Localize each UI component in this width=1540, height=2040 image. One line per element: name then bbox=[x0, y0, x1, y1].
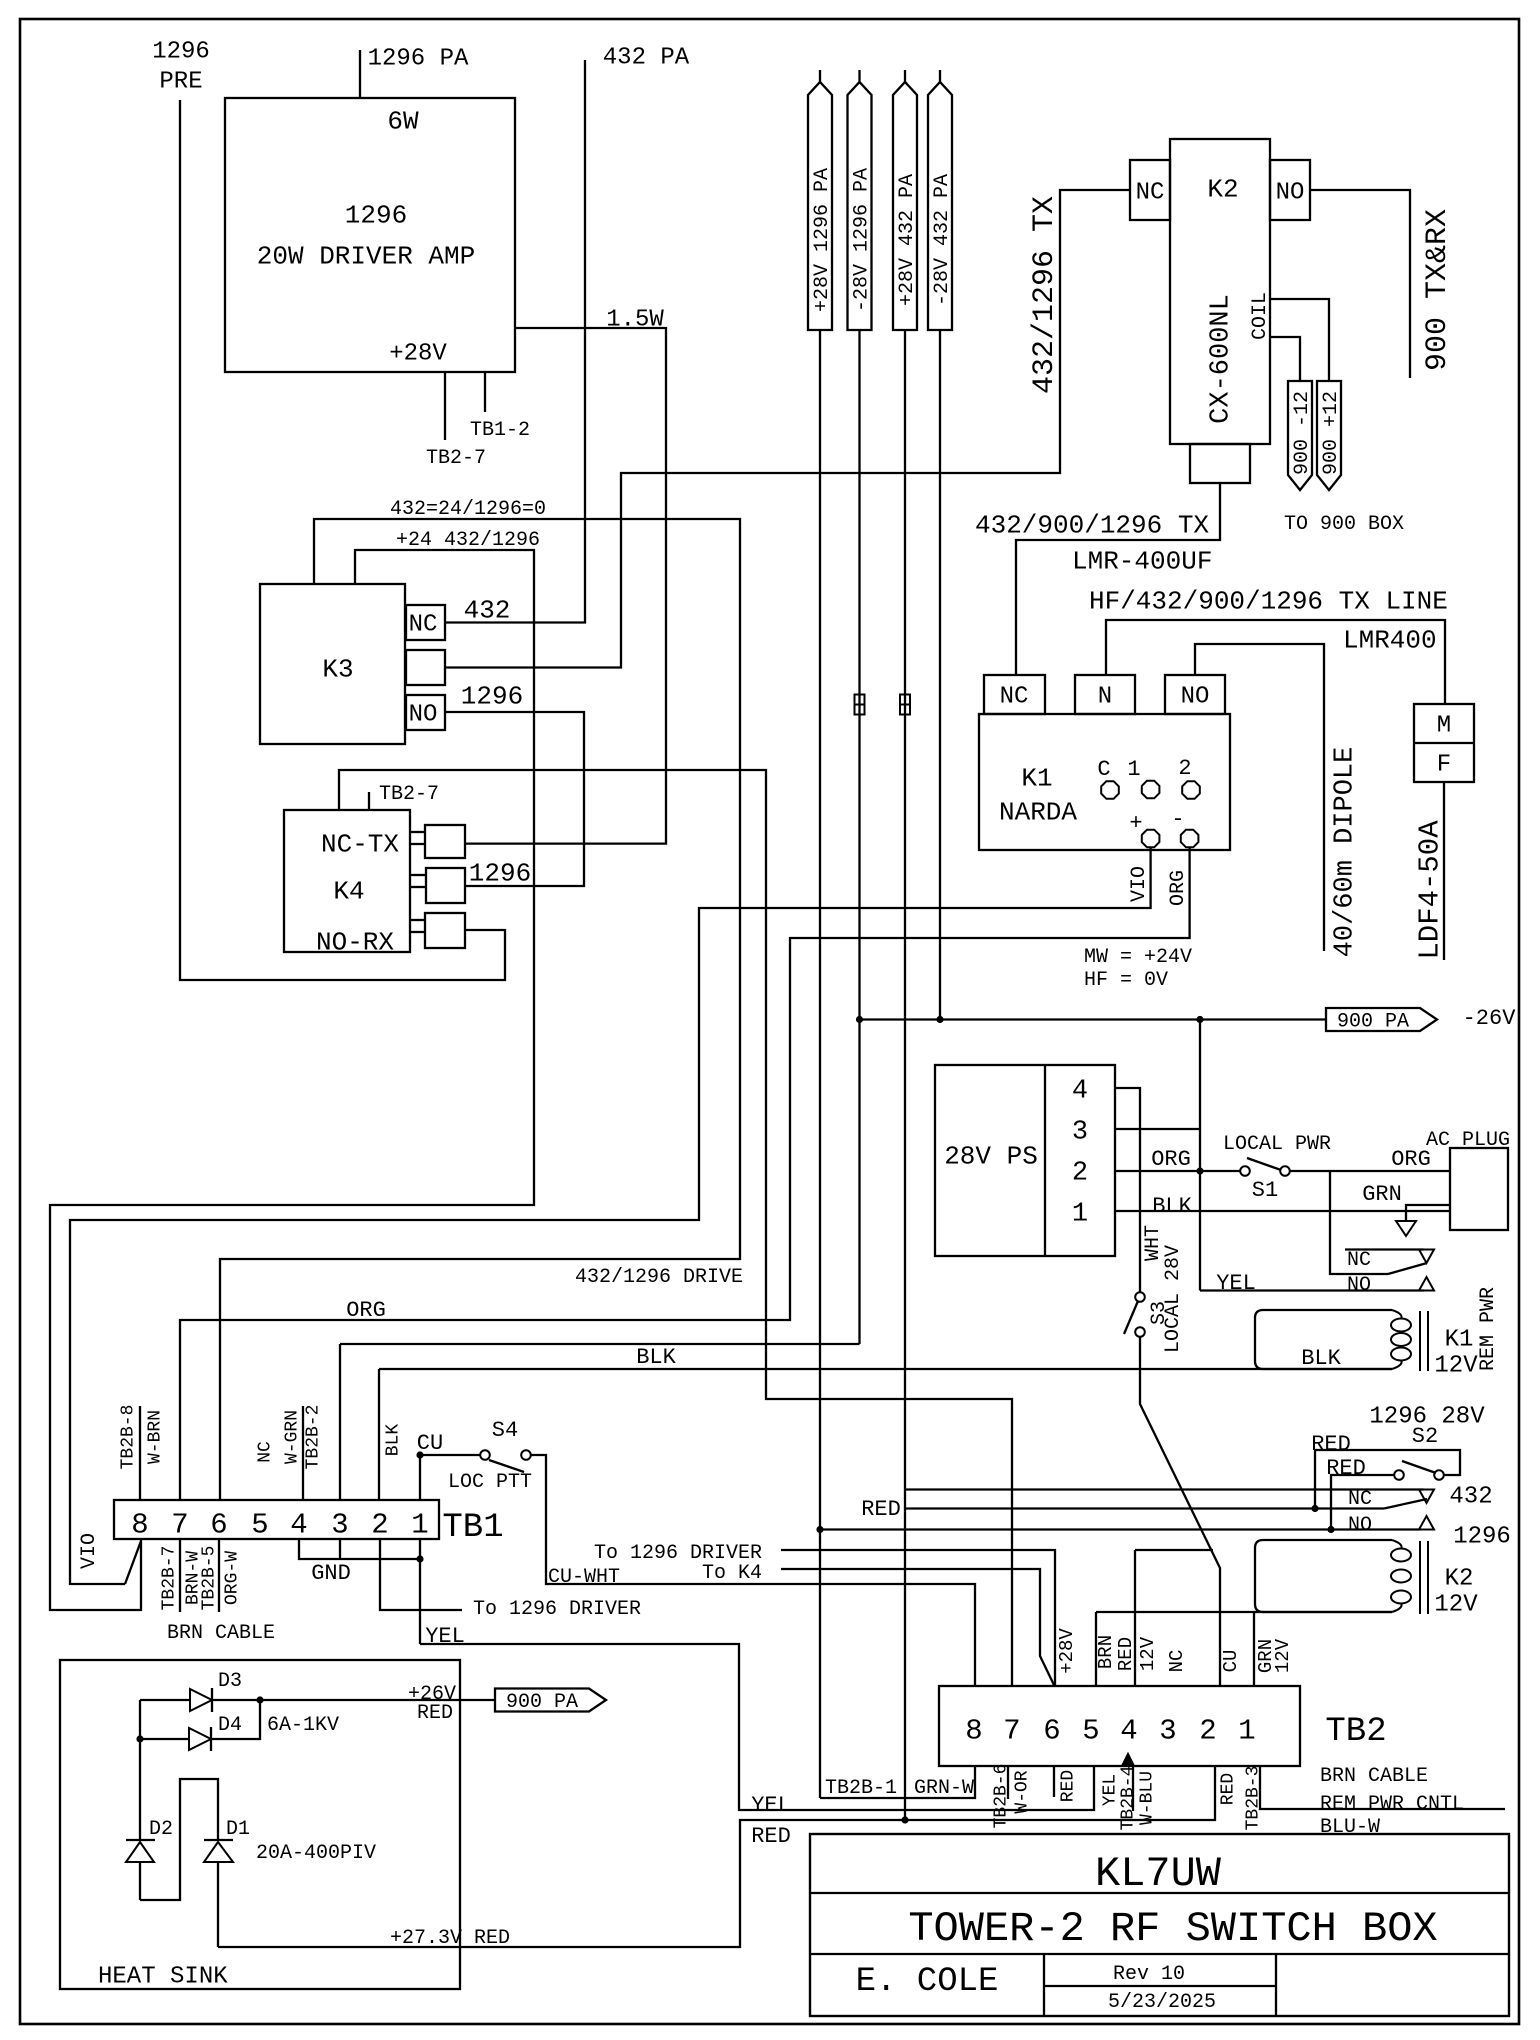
svg-text:4: 4 bbox=[1072, 1077, 1088, 1107]
title cell rev bbox=[1275, 1954, 1277, 2016]
plug AC PLUG box bbox=[1450, 1148, 1508, 1230]
svg-text:1296: 1296 bbox=[345, 200, 407, 230]
wire TB1-2 to 1296 driver bbox=[380, 1539, 462, 1610]
fuse on -28V 1296 PA bbox=[855, 695, 865, 715]
svg-text:TB2B-2: TB2B-2 bbox=[304, 1405, 324, 1470]
contact S2 NC 432 bbox=[905, 1488, 1424, 1490]
svg-text:432 PA: 432 PA bbox=[603, 45, 690, 72]
svg-text:2: 2 bbox=[1072, 1159, 1088, 1189]
wire K3 NO 1296 to K4 common bbox=[445, 712, 584, 886]
terminal K3 NC box bbox=[406, 605, 445, 640]
svg-text:-28V 1296 PA: -28V 1296 PA bbox=[851, 168, 874, 312]
svg-text:D2: D2 bbox=[149, 1818, 173, 1841]
wire K1 N to M/F adapter bbox=[1106, 620, 1445, 704]
connector flag +28V 1296 PA bbox=[808, 82, 832, 330]
wire K2 common to K1 NC 432/900/1296 TX bbox=[1016, 483, 1220, 674]
svg-text:432/1296 TX: 432/1296 TX bbox=[1028, 196, 1062, 394]
svg-text:W-BRN: W-BRN bbox=[146, 1410, 166, 1464]
svg-text:COIL: COIL bbox=[1249, 292, 1272, 340]
title block outer box bbox=[810, 1834, 1509, 2016]
svg-text:Rev 10: Rev 10 bbox=[1113, 1963, 1185, 1986]
svg-text:12V: 12V bbox=[1272, 1638, 1294, 1673]
svg-text:+28V 432 PA: +28V 432 PA bbox=[896, 174, 919, 306]
svg-text:LMR-400UF: LMR-400UF bbox=[1072, 546, 1212, 576]
svg-text:AC PLUG: AC PLUG bbox=[1426, 1129, 1510, 1152]
svg-text:6W: 6W bbox=[387, 106, 419, 136]
svg-text:GND: GND bbox=[311, 1561, 351, 1586]
svg-text:TOWER-2 RF SWITCH BOX: TOWER-2 RF SWITCH BOX bbox=[908, 1905, 1437, 1953]
svg-text:HEAT SINK: HEAT SINK bbox=[98, 1964, 228, 1991]
svg-text:K2: K2 bbox=[1207, 174, 1238, 204]
wire To K4 to TB2-6 bbox=[781, 1569, 1054, 1685]
wire TB1-1 up to CU S4 bbox=[419, 1455, 421, 1500]
svg-text:1: 1 bbox=[411, 1508, 428, 1541]
svg-text:432: 432 bbox=[464, 595, 511, 625]
svg-text:W-GRN: W-GRN bbox=[283, 1410, 303, 1464]
title row TOWER-2 RF SWITCH BOX bbox=[810, 1953, 1509, 1955]
svg-text:NARDA: NARDA bbox=[999, 797, 1077, 827]
svg-text:HF/432/900/1296 TX LINE: HF/432/900/1296 TX LINE bbox=[1089, 586, 1448, 616]
wire VIO diagonal to TB1 pin8 bbox=[125, 1541, 141, 1584]
svg-text:BLU-W: BLU-W bbox=[1320, 1816, 1380, 1839]
svg-text:432/1296 DRIVE: 432/1296 DRIVE bbox=[575, 1266, 743, 1289]
wire F to LDF4-50A bbox=[1443, 782, 1445, 960]
svg-text:D3: D3 bbox=[218, 1670, 242, 1693]
svg-text:12V: 12V bbox=[1434, 1592, 1478, 1619]
connector flag 900 PA bottom bbox=[495, 1689, 606, 1712]
connector flag +28V 432 PA bbox=[893, 82, 917, 330]
svg-text:900 PA: 900 PA bbox=[1337, 1011, 1409, 1034]
label TB2-7 tick bbox=[368, 792, 370, 810]
svg-text:NC: NC bbox=[256, 1441, 276, 1463]
wire K3 common to K2 NC bbox=[445, 190, 1130, 668]
wire K2 coil - to flag 900 -12 bbox=[1270, 337, 1300, 381]
svg-text:NO: NO bbox=[409, 702, 438, 729]
svg-text:YEL: YEL bbox=[751, 1793, 791, 1818]
svg-text:K1: K1 bbox=[1021, 763, 1052, 793]
power supply 28V PS box bbox=[935, 1065, 1115, 1256]
svg-text:TB2-7: TB2-7 bbox=[379, 783, 439, 806]
contact K1 NC bbox=[1345, 1248, 1424, 1250]
wire +28V 1296 PA down to TB2-8 bbox=[819, 330, 821, 1798]
wire VIO from K1 + to TB1-8 area bbox=[70, 848, 1151, 1584]
svg-text:40/60m DIPOLE: 40/60m DIPOLE bbox=[1331, 747, 1361, 958]
svg-text:1296 PA: 1296 PA bbox=[368, 46, 469, 73]
terminal K4 common box bbox=[426, 868, 465, 903]
wire BRN TB2-5 to K2 coil bbox=[1095, 1612, 1097, 1686]
wire BLK -26V from TB1-3 bbox=[339, 1344, 341, 1500]
svg-text:CU: CU bbox=[1220, 1650, 1242, 1673]
wire TB1-6 below stub bbox=[218, 1539, 220, 1612]
svg-text:RED: RED bbox=[1219, 1773, 1239, 1805]
svg-text:NO-RX: NO-RX bbox=[316, 927, 394, 957]
svg-text:K4: K4 bbox=[333, 876, 364, 906]
svg-text:8: 8 bbox=[131, 1508, 148, 1541]
svg-text:1: 1 bbox=[1238, 1714, 1255, 1747]
wire TB2-8 below to +28V 1296 PA flag bbox=[820, 1766, 975, 1798]
svg-text:-26V: -26V bbox=[1463, 1006, 1517, 1031]
svg-text:BRN CABLE: BRN CABLE bbox=[167, 1622, 275, 1645]
wire To 1296 DRIVER to TB2-6 bbox=[781, 1550, 1055, 1686]
svg-text:6: 6 bbox=[210, 1508, 227, 1541]
svg-text:M: M bbox=[1437, 713, 1451, 740]
svg-text:NO: NO bbox=[1347, 1274, 1371, 1297]
wire GND bracket TB1-4 TB1-3 bbox=[299, 1539, 421, 1559]
terminal K3 NO box bbox=[406, 695, 445, 730]
svg-text:S4: S4 bbox=[492, 1418, 518, 1443]
terminal K1 NC box bbox=[984, 675, 1045, 714]
switch S3 bbox=[1135, 1292, 1145, 1302]
svg-text:6A-1KV: 6A-1KV bbox=[267, 1714, 339, 1737]
svg-text:3: 3 bbox=[1159, 1714, 1176, 1747]
svg-text:BLK: BLK bbox=[1301, 1346, 1341, 1371]
wire RED +27.3V from heat sink to TB2-2 bbox=[218, 1766, 1215, 1947]
svg-text:4: 4 bbox=[1120, 1714, 1137, 1747]
wire driver +28V stub TB2-7 bbox=[444, 372, 446, 440]
svg-text:BLK: BLK bbox=[1152, 1194, 1192, 1219]
svg-text:TB2: TB2 bbox=[1325, 1713, 1386, 1751]
title row KL7UW bbox=[810, 1892, 1509, 1894]
svg-text:LOCAL PWR: LOCAL PWR bbox=[1223, 1133, 1331, 1156]
svg-text:To K4: To K4 bbox=[702, 1562, 762, 1585]
wire PS pin3 to -26V bus bbox=[1115, 1128, 1200, 1130]
svg-text:5: 5 bbox=[1082, 1714, 1099, 1747]
svg-text:900 -12: 900 -12 bbox=[1291, 391, 1314, 475]
wire TB1-7 below stub bbox=[179, 1539, 181, 1612]
relay K4 box bbox=[284, 810, 410, 952]
svg-text:N: N bbox=[1098, 684, 1112, 711]
wire K1 NO to 40/60m dipole bbox=[1195, 644, 1324, 951]
wire RED to TB2 pin4 net bbox=[1135, 1549, 1213, 1551]
svg-text:LMR400: LMR400 bbox=[1343, 625, 1437, 655]
adapter M/F box bbox=[1414, 704, 1474, 782]
svg-text:RED: RED bbox=[1311, 1432, 1351, 1457]
terminal block TB1 box bbox=[114, 1500, 439, 1539]
svg-text:RED: RED bbox=[861, 1497, 901, 1522]
svg-text:BRN: BRN bbox=[1095, 1635, 1117, 1669]
connector flag -28V 1296 PA bbox=[848, 82, 872, 330]
svg-text:900 TX&RX: 900 TX&RX bbox=[1421, 209, 1455, 371]
terminal K1 NO box bbox=[1165, 675, 1225, 714]
svg-text:3: 3 bbox=[1072, 1118, 1088, 1148]
svg-text:TB2B-5: TB2B-5 bbox=[200, 1546, 220, 1611]
svg-text:ORG-W: ORG-W bbox=[223, 1551, 243, 1605]
svg-text:5: 5 bbox=[251, 1508, 268, 1541]
svg-text:8: 8 bbox=[965, 1714, 982, 1747]
svg-text:TB1-2: TB1-2 bbox=[470, 419, 530, 442]
svg-text:TB2B-1: TB2B-1 bbox=[825, 1777, 897, 1800]
heat sink box bbox=[60, 1660, 460, 1989]
relay coil K1 12V bbox=[1255, 1310, 1392, 1369]
svg-text:LDF4-50A: LDF4-50A bbox=[1413, 820, 1446, 960]
svg-text:+28V: +28V bbox=[1056, 1628, 1078, 1674]
svg-text:2: 2 bbox=[371, 1508, 388, 1541]
svg-text:-28V 432 PA: -28V 432 PA bbox=[931, 174, 954, 306]
wire S3 to TB2-2 bbox=[1140, 1337, 1220, 1686]
terminal K2 NC box bbox=[1130, 160, 1170, 220]
wire K4 frame to TB2-7 net bbox=[339, 770, 1012, 1686]
relay K1 NARDA box bbox=[979, 714, 1230, 850]
svg-text:LOC PTT: LOC PTT bbox=[448, 1471, 532, 1494]
svg-text:12V: 12V bbox=[1434, 1353, 1478, 1380]
svg-text:RED: RED bbox=[751, 1824, 791, 1849]
fuse on +28V 432 PA bbox=[900, 695, 910, 715]
svg-text:+27.3V RED: +27.3V RED bbox=[390, 1927, 510, 1950]
wire TB2-1 below REM PWR CNTL bbox=[1260, 1766, 1505, 1809]
svg-text:900 PA: 900 PA bbox=[506, 1691, 578, 1714]
wire WHT down to S3 bbox=[1139, 1129, 1141, 1292]
svg-text:S2: S2 bbox=[1412, 1424, 1438, 1449]
switch S1 bbox=[1240, 1166, 1250, 1176]
terminal K1 N box bbox=[1075, 675, 1135, 714]
relay K3 box bbox=[260, 584, 405, 744]
svg-text:NC: NC bbox=[1000, 684, 1029, 711]
svg-text:NC-TX: NC-TX bbox=[321, 829, 399, 859]
svg-text:F: F bbox=[1437, 752, 1451, 779]
svg-text:K3: K3 bbox=[322, 654, 353, 684]
wire YEL TB1-1 to TB2-5 bbox=[420, 1644, 1094, 1810]
svg-text:RED: RED bbox=[1115, 1637, 1137, 1671]
wire K2 NO to 900 TX&RX bbox=[1310, 190, 1410, 378]
contact K1 pole from ORG bbox=[1330, 1171, 1388, 1274]
wire PS pin1 BLK to AC plug bbox=[1115, 1210, 1450, 1212]
svg-text:900 +12: 900 +12 bbox=[1320, 391, 1343, 475]
wire -28V 1296 PA down to TB1-3 net bbox=[858, 330, 860, 1344]
svg-text:HF = 0V: HF = 0V bbox=[1084, 969, 1168, 992]
svg-text:ORG: ORG bbox=[1167, 870, 1190, 906]
svg-text:D4: D4 bbox=[218, 1714, 242, 1737]
svg-text:To 1296 DRIVER: To 1296 DRIVER bbox=[473, 1598, 641, 1621]
terminal K4 NC-TX box bbox=[425, 825, 465, 858]
wire 1296 PRE to K4 NO-RX bbox=[180, 100, 505, 980]
svg-text:1296: 1296 bbox=[1453, 1524, 1511, 1551]
svg-text:7: 7 bbox=[171, 1508, 188, 1541]
svg-text:VIO: VIO bbox=[1128, 866, 1151, 902]
svg-text:YEL: YEL bbox=[425, 1624, 465, 1649]
contact K1 NO + YEL wire bbox=[1200, 1289, 1424, 1291]
svg-text:1296: 1296 bbox=[461, 681, 523, 711]
title cell E. COLE bbox=[1043, 1954, 1045, 2016]
terminal K2 NO box bbox=[1270, 160, 1310, 220]
connector flag 900 PA right bbox=[1326, 1008, 1437, 1031]
svg-text:NO: NO bbox=[1276, 180, 1305, 207]
svg-text:432: 432 bbox=[1449, 1484, 1492, 1511]
wire -26V bus to 900 PA flag bbox=[860, 1018, 1327, 1020]
switch S4 LOC PTT bbox=[420, 1454, 480, 1456]
svg-text:W-BLU: W-BLU bbox=[1138, 1771, 1158, 1825]
svg-text:LOCAL 28V: LOCAL 28V bbox=[1162, 1245, 1185, 1353]
svg-text:2: 2 bbox=[1199, 1714, 1216, 1747]
svg-text:BLK: BLK bbox=[636, 1345, 676, 1370]
svg-text:YEL: YEL bbox=[1216, 1271, 1256, 1296]
svg-text:PRE: PRE bbox=[159, 69, 202, 96]
svg-text:432=24/1296=0: 432=24/1296=0 bbox=[390, 498, 546, 521]
connector flag 900 -12 bbox=[1288, 381, 1312, 490]
svg-text:E. COLE: E. COLE bbox=[856, 1963, 999, 2001]
svg-text:1296: 1296 bbox=[469, 858, 531, 888]
svg-text:3: 3 bbox=[331, 1508, 348, 1541]
svg-text:ORG: ORG bbox=[1151, 1147, 1191, 1172]
wire K2 coil + to flag 900 +12 bbox=[1270, 299, 1329, 381]
svg-text:TB2B-8: TB2B-8 bbox=[119, 1405, 139, 1470]
svg-text:12V: 12V bbox=[1137, 1636, 1159, 1671]
wire -28V 432 PA down to -26V bus bbox=[939, 330, 941, 1020]
svg-text:GRN: GRN bbox=[1362, 1182, 1402, 1207]
svg-text:D1: D1 bbox=[226, 1818, 250, 1841]
wire -26V bus branch down to K1 NO contact bbox=[1199, 1020, 1201, 1291]
svg-text:K1: K1 bbox=[1445, 1327, 1474, 1354]
svg-text:REM PWR: REM PWR bbox=[1477, 1287, 1500, 1371]
svg-text:RED: RED bbox=[1059, 1770, 1079, 1802]
svg-text:RED: RED bbox=[417, 1702, 453, 1725]
svg-text:1296: 1296 bbox=[152, 39, 210, 66]
wire +24 432/1296 net from K3 to TB1-8 bbox=[50, 550, 534, 1610]
svg-text:432/900/1296 TX: 432/900/1296 TX bbox=[975, 510, 1209, 540]
wire S1 to AC plug ORG bbox=[1290, 1170, 1450, 1172]
wire stub below TB2-6 RED bbox=[1053, 1766, 1055, 1797]
wire GRN from AC plug bbox=[1406, 1205, 1450, 1221]
svg-text:ORG: ORG bbox=[1391, 1147, 1431, 1172]
amplifier 1296 20W DRIVER AMP box bbox=[225, 98, 515, 372]
wire 1296 PA input bbox=[359, 50, 361, 98]
wire S4 to CU-WHT to TB2-8 bbox=[531, 1455, 975, 1686]
svg-text:REM PWR CNTL: REM PWR CNTL bbox=[1320, 1793, 1464, 1816]
wire PS pin4 to pin3 bbox=[1115, 1088, 1140, 1129]
terminal K4 NO-RX box bbox=[425, 913, 465, 948]
svg-text:4: 4 bbox=[290, 1508, 307, 1541]
svg-text:6: 6 bbox=[1043, 1714, 1060, 1747]
arrow into TB2-4 bbox=[1122, 1754, 1134, 1766]
svg-text:MW = +24V: MW = +24V bbox=[1084, 946, 1192, 969]
svg-text:+: + bbox=[1129, 811, 1142, 836]
svg-text:1: 1 bbox=[1127, 757, 1140, 782]
svg-text:GRN-W: GRN-W bbox=[914, 1777, 974, 1800]
svg-text:W-OR: W-OR bbox=[1013, 1770, 1033, 1813]
svg-text:+28V 1296 PA: +28V 1296 PA bbox=[811, 168, 834, 312]
svg-text:TB2-7: TB2-7 bbox=[426, 447, 486, 470]
svg-text:NC: NC bbox=[1136, 180, 1165, 207]
svg-text:NC: NC bbox=[409, 612, 438, 639]
svg-text:TO 900 BOX: TO 900 BOX bbox=[1284, 513, 1404, 536]
svg-text:+28V: +28V bbox=[389, 341, 447, 368]
svg-text:1: 1 bbox=[1072, 1200, 1088, 1230]
wire driver +28V stub TB1-2 bbox=[484, 372, 486, 412]
wire TB2-1 to K2 coil bbox=[1253, 1612, 1255, 1686]
wire BLK TB1-2 to K1 coil bbox=[378, 1369, 380, 1500]
svg-text:KL7UW: KL7UW bbox=[1095, 1850, 1222, 1898]
svg-text:1.5W: 1.5W bbox=[606, 307, 664, 334]
svg-text:NO: NO bbox=[1181, 684, 1210, 711]
svg-text:2: 2 bbox=[1178, 756, 1191, 781]
svg-text:TB2B-7: TB2B-7 bbox=[160, 1546, 180, 1611]
svg-text:VIO: VIO bbox=[78, 1533, 101, 1569]
relay coil K2 12V bbox=[1255, 1540, 1392, 1612]
svg-text:S1: S1 bbox=[1252, 1178, 1278, 1203]
wire driver output 1.5W to K4 NC-TX bbox=[465, 328, 666, 844]
svg-text:20W DRIVER AMP: 20W DRIVER AMP bbox=[257, 241, 475, 271]
svg-text:C: C bbox=[1097, 757, 1110, 782]
svg-text:NC: NC bbox=[1166, 1650, 1188, 1673]
wire +28V 432 PA down to RED net bbox=[904, 330, 906, 1820]
svg-text:20A-400PIV: 20A-400PIV bbox=[256, 1842, 376, 1865]
svg-text:BRN CABLE: BRN CABLE bbox=[1320, 1765, 1428, 1788]
relay K2 box CX-600NL bbox=[1170, 139, 1270, 444]
svg-text:YEL: YEL bbox=[1101, 1774, 1121, 1806]
svg-text:ORG: ORG bbox=[346, 1298, 386, 1323]
terminal K3 common box bbox=[406, 650, 445, 685]
svg-text:CU: CU bbox=[417, 1431, 443, 1456]
svg-text:BLK: BLK bbox=[384, 1424, 404, 1457]
connector flag -28V 432 PA bbox=[928, 82, 952, 330]
wire 432 PA line to K3 NC bbox=[445, 60, 585, 623]
svg-text:NO: NO bbox=[1348, 1514, 1372, 1537]
wire TB1-1 down YEL bbox=[419, 1539, 421, 1644]
wire ORG from K1 - to TB1-7 bbox=[180, 848, 1190, 1500]
svg-text:TB1: TB1 bbox=[442, 1509, 503, 1547]
wire 432=24/1296=0 net from K3 to TB1-6 bbox=[220, 519, 740, 1500]
ground symbol bbox=[1396, 1221, 1416, 1236]
svg-text:+24 432/1296: +24 432/1296 bbox=[396, 529, 540, 552]
connector K2 bottom stub bbox=[1190, 444, 1250, 483]
svg-text:-: - bbox=[1171, 807, 1184, 832]
svg-text:5/23/2025: 5/23/2025 bbox=[1108, 1991, 1216, 2014]
svg-text:CX-600NL: CX-600NL bbox=[1207, 294, 1237, 424]
terminal block TB2 box bbox=[939, 1686, 1300, 1766]
svg-text:K2: K2 bbox=[1445, 1566, 1474, 1593]
svg-text:28V PS: 28V PS bbox=[944, 1141, 1038, 1171]
contact S2 NO 1296 bbox=[820, 1528, 1420, 1530]
connector flag 900 +12 bbox=[1317, 381, 1341, 490]
svg-text:CU-WHT: CU-WHT bbox=[548, 1566, 620, 1589]
svg-text:NC: NC bbox=[1347, 1249, 1371, 1272]
contact S2 pole RED bbox=[905, 1507, 1384, 1509]
svg-text:7: 7 bbox=[1003, 1714, 1020, 1747]
wire PS pin2 ORG to S1 bbox=[1115, 1170, 1240, 1172]
